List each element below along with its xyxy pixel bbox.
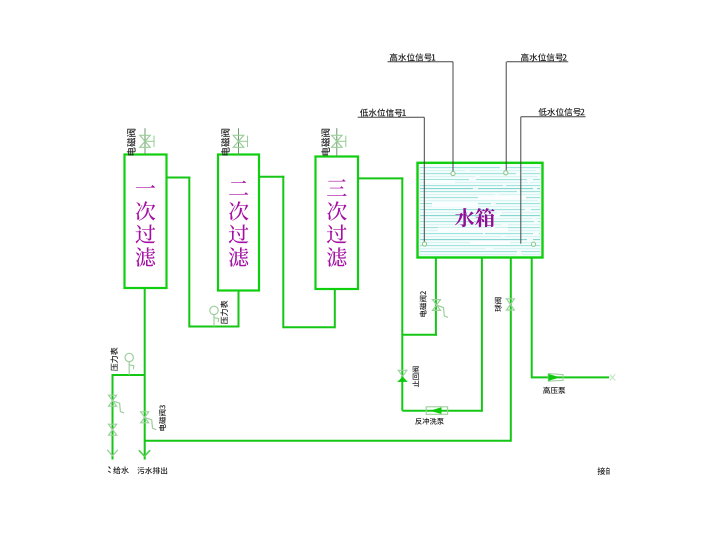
node sensor point 3 [422,242,426,246]
label 电磁阀 (vessel 3 top valve) [321,129,330,156]
node sensor point 2 [504,171,508,175]
label 低水位信号2 [538,108,546,116]
wire loop1 vertical down [188,177,190,328]
high pressure pump 高压泵 [548,374,563,382]
label 给水 [108,467,110,473]
wire feed branch horizontal [112,374,145,376]
solenoid valve above vessel 2 [233,135,243,147]
wire stub above vessel 1 [144,128,146,154]
wire solenoid2 pipe up to tank [435,258,437,336]
vessel V3 三次过滤 [316,157,359,290]
wire loop2 bottom horizontal [283,326,335,328]
vessel V1 一次过滤 [125,155,167,289]
arrow feed water down [107,450,118,456]
wire loop2 up into vessel3 [334,289,336,328]
wire high-pressure pump line [532,376,610,378]
label 反冲洗泵 [415,418,422,425]
wire feed vertical [112,375,114,460]
water tank 水箱 body [418,163,543,258]
pressure gauge PG2 [125,353,133,361]
wire stub above vessel 3 [336,128,338,156]
label 电磁阀3 [159,405,166,430]
wire stub above vessel 2 [238,128,240,154]
label 高压泵 [543,387,550,394]
backwash pump 反冲洗泵 [426,407,447,415]
leader line 低水位信号2 [521,116,586,118]
arrow sewage down [139,450,150,456]
solenoid valve above vessel 3 [332,135,342,147]
wire backwash horizontal y=410.7 [402,410,482,412]
solenoid valve 电磁阀3 on drain [141,412,149,423]
label 电磁阀 (vessel 2 top valve) [221,129,230,156]
solenoid valve above vessel 1 [140,135,150,147]
vessel V2 二次过滤 [218,155,259,291]
tank water stripes [420,167,540,169]
label 高水位信号1 [390,53,398,61]
wire vessel3 outlet horizontal [358,177,403,179]
node sensor point 1 [451,171,455,175]
ball valve 球阀 [507,299,515,310]
leader line 高水位信号2 [507,61,569,63]
wire tank downpipe x=531.7 [531,258,533,379]
node sensor point 4 [531,242,535,246]
wire loop1 up into vessel2 [238,290,240,328]
label 低水位信号1 [360,109,368,117]
label 球阀 [495,297,502,311]
solenoid valve 电磁阀2 [433,300,441,311]
wire vessel1 outlet horizontal [166,177,190,179]
wire branch y=334.8 to solenoid2 [402,334,437,336]
tank label 水箱 [455,208,475,227]
end break mark [610,374,616,380]
valve VB plain on feed line [109,424,117,435]
wire vessel2 outlet horizontal [259,176,284,178]
leader line 低水位信号1 [358,116,425,118]
wire tank downpipe x=481.9 [481,258,483,412]
tank white streaks [432,203,478,208]
wire long bottom drain header [145,440,511,442]
check valve 止回阀 [398,370,407,376]
label 压力表 PG2 [110,348,117,372]
label 压力表 PG1 [220,301,227,325]
label 污水排出 [137,467,144,474]
wire vessel1 bottom drain [144,288,146,460]
label 电磁阀2 [420,291,427,317]
wire loop1 bottom horizontal [189,326,238,328]
valve VA globe w/ drain hook on feed line [109,395,117,406]
wire loop2 vertical down [282,176,284,329]
label 止回阀 [412,366,419,387]
wire main riser x=402 down [401,177,403,410]
pressure gauge PG1 [210,306,218,314]
label 接自 (bottom right) [598,467,606,475]
wire tank downpipe x=510.8 [510,258,512,442]
label 高水位信号2 [521,53,529,61]
leader line 高水位信号1 [388,61,454,63]
label 电磁阀 (vessel 1 top valve) [127,129,136,156]
